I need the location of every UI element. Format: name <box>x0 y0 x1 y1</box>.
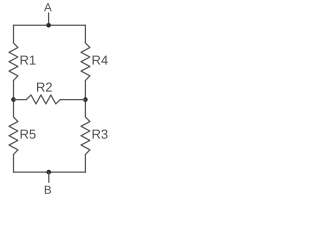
wire B stub <box>48 172 50 182</box>
label R1 <box>21 56 36 65</box>
wire left rail upper <box>13 25 15 43</box>
node right-mid junction dot <box>83 97 88 102</box>
wire right rail middle <box>84 81 86 117</box>
wire left rail lower <box>13 155 15 173</box>
label R2 <box>37 83 52 92</box>
wire right rail upper <box>84 25 86 43</box>
node A label <box>44 3 52 11</box>
resistor R5 <box>9 117 18 155</box>
wire right rail lower <box>84 155 86 173</box>
node A junction dot <box>46 23 51 28</box>
label R4 <box>93 56 108 65</box>
resistor R1 <box>9 43 18 81</box>
node B label <box>45 186 51 194</box>
resistor R2 <box>26 95 60 104</box>
node left-mid junction dot <box>11 97 16 102</box>
wire R2 right lead <box>60 99 85 101</box>
wire A stub <box>48 13 50 25</box>
wire bottom horizontal <box>14 171 86 173</box>
wire top horizontal <box>14 24 86 26</box>
wire R2 left lead <box>14 99 27 101</box>
wire left rail middle <box>13 81 15 117</box>
node B junction dot <box>47 170 52 175</box>
label R3 <box>93 130 108 139</box>
resistor R3 <box>81 117 90 155</box>
label R5 <box>21 130 36 139</box>
resistor R4 <box>81 43 90 81</box>
